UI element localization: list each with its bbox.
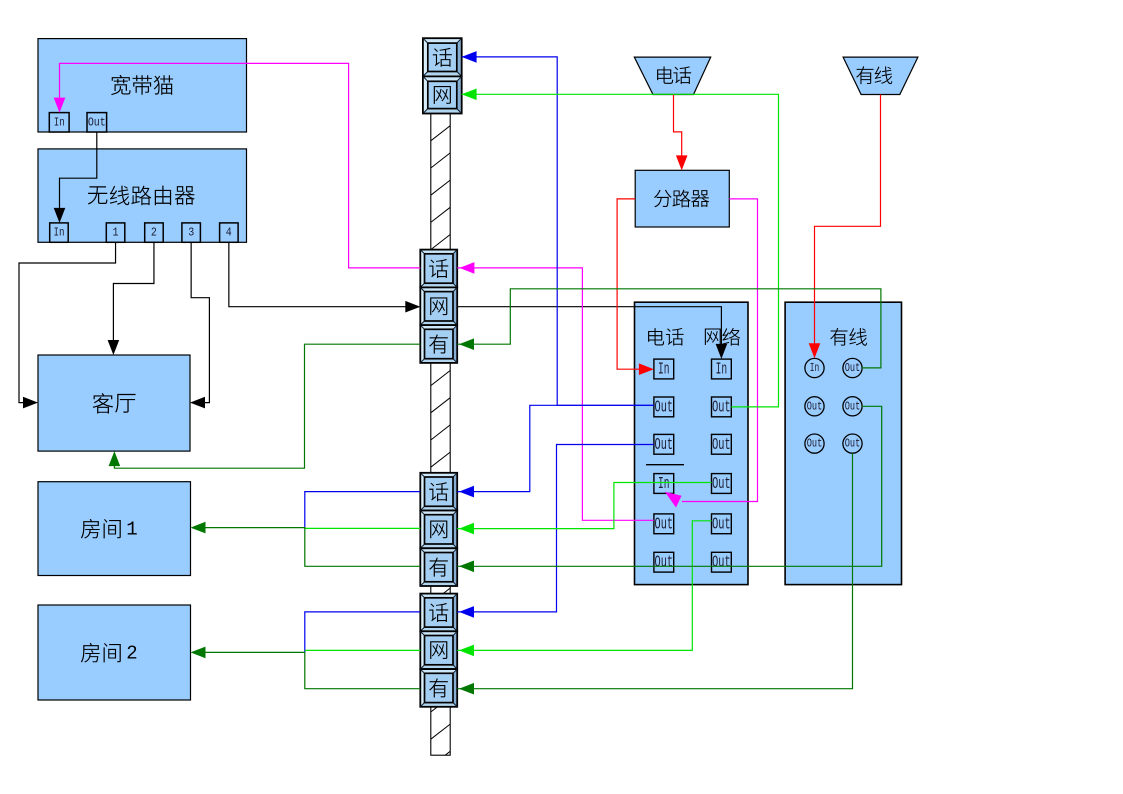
svg-text:1: 1 [126, 519, 137, 541]
svg-text:Out: Out [712, 514, 731, 533]
svg-text:Out: Out [712, 553, 731, 572]
svg-text:In: In [54, 226, 65, 240]
svg-text:Out: Out [712, 435, 731, 454]
svg-text:In: In [716, 360, 728, 379]
svg-text:In: In [658, 474, 670, 493]
svg-text:2: 2 [151, 226, 157, 240]
svg-text:Out: Out [712, 397, 731, 416]
svg-text:Out: Out [807, 399, 823, 413]
svg-text:1: 1 [113, 226, 119, 240]
svg-text:Out: Out [845, 437, 861, 451]
svg-text:2: 2 [126, 643, 137, 665]
svg-text:Out: Out [712, 474, 731, 493]
svg-text:Out: Out [655, 514, 674, 533]
svg-text:In: In [810, 361, 820, 375]
svg-text:Out: Out [655, 397, 674, 416]
svg-text:Out: Out [88, 115, 106, 129]
svg-text:Out: Out [655, 553, 674, 572]
svg-text:In: In [54, 115, 65, 129]
svg-text:3: 3 [188, 226, 194, 240]
svg-text:4: 4 [226, 226, 232, 240]
svg-text:In: In [658, 360, 670, 379]
svg-text:Out: Out [655, 435, 674, 454]
svg-text:Out: Out [845, 361, 861, 375]
svg-text:Out: Out [807, 437, 823, 451]
svg-text:Out: Out [845, 399, 861, 413]
